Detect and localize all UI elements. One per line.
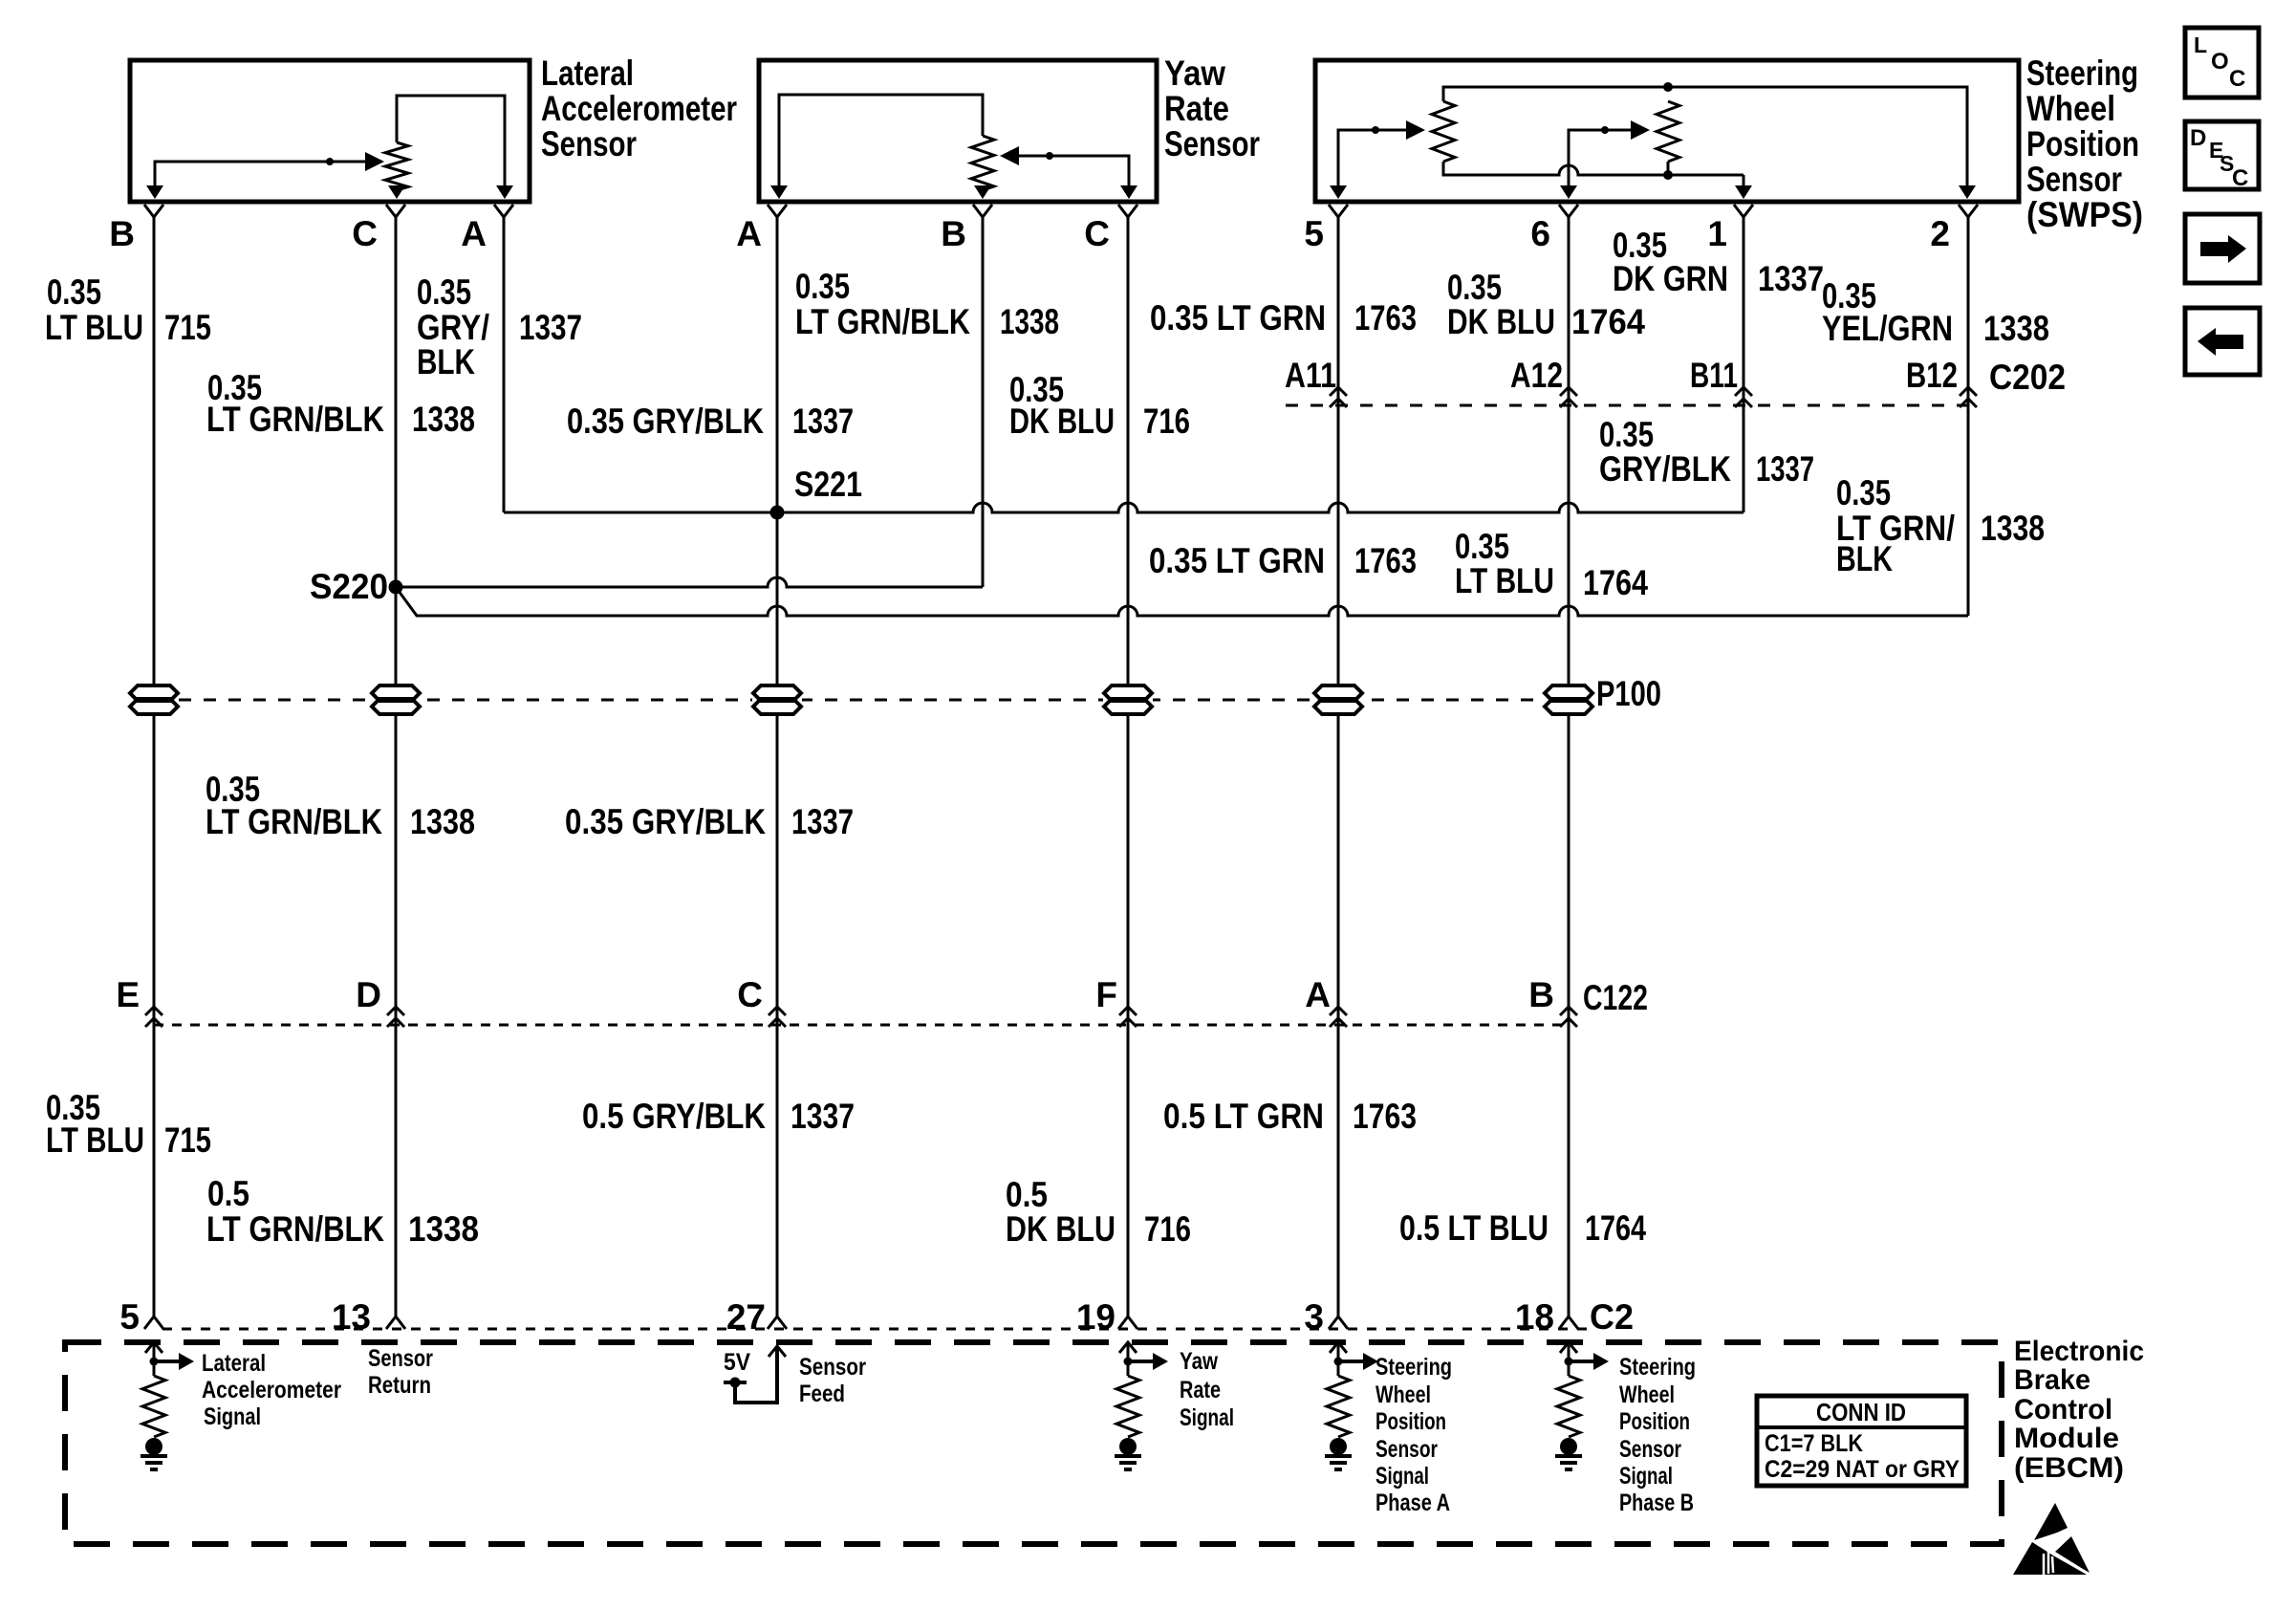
- EBCM pin 3 ground dot: [1330, 1438, 1347, 1455]
- wire LT GRN/BLK 1338 (yaw B): [982, 226, 985, 587]
- svg-text:19: 19: [1076, 1297, 1116, 1337]
- EBCM pin 3 text SWPS Signal Phase A: [1375, 1354, 1452, 1516]
- EBCM pin 5 signal arrow: [154, 1360, 180, 1363]
- terminal SWPS 2: [1959, 205, 1978, 226]
- label 0.5 DK BLU 716 (lower): [1006, 1175, 1191, 1249]
- arrow left icon: [2185, 308, 2260, 375]
- svg-text:S221: S221: [794, 465, 862, 504]
- svg-text:DK BLU: DK BLU: [1009, 402, 1115, 441]
- grommet P100 at wire x=1400: [1313, 685, 1363, 715]
- svg-text:Brake: Brake: [2014, 1364, 2090, 1396]
- label 0.35 GRY/BLK 1337 (lateral A): [417, 272, 582, 381]
- wire GRY/BLK 1337 (lateral A to S221): [503, 226, 506, 512]
- EBCM pin 18 junction dot: [1565, 1358, 1573, 1366]
- terminal SWPS 6: [1559, 205, 1578, 226]
- svg-text:Yaw: Yaw: [1164, 54, 1225, 93]
- yaw sensor internal loop wire: [779, 95, 983, 186]
- svg-text:Signal: Signal: [1180, 1404, 1234, 1431]
- svg-text:C202: C202: [1989, 358, 2066, 397]
- svg-text:Accelerometer: Accelerometer: [541, 89, 737, 128]
- connector C122 dashed line: [154, 1024, 1569, 1027]
- svg-text:B: B: [1528, 975, 1554, 1014]
- wire GRY/BLK 1337 (yaw A / S221 to EBCM 27): [776, 226, 779, 1308]
- svg-text:0.35: 0.35: [1599, 415, 1654, 454]
- svg-text:1337: 1337: [792, 402, 854, 441]
- terminal SWPS 5: [1329, 205, 1348, 226]
- SWPS wiper B arrow: [1631, 120, 1650, 140]
- SWPS top loop dot: [1663, 82, 1673, 92]
- connector C202 terminal A12: [1560, 387, 1577, 407]
- connector C122 terminal E: [145, 1007, 162, 1027]
- svg-text:1337: 1337: [791, 1097, 855, 1136]
- svg-text:P100: P100: [1596, 674, 1661, 713]
- svg-text:C: C: [2229, 66, 2245, 92]
- svg-text:Position: Position: [1619, 1408, 1690, 1435]
- SWPS resistor phase B: [1657, 101, 1679, 162]
- svg-text:A12: A12: [1510, 356, 1563, 395]
- wire S220 branch 1: [396, 577, 983, 587]
- svg-text:A11: A11: [1285, 356, 1336, 395]
- lateral sensor internal loop wire: [397, 96, 505, 186]
- svg-text:0.35 LT GRN: 0.35 LT GRN: [1150, 298, 1326, 337]
- svg-text:0.5: 0.5: [207, 1174, 249, 1213]
- yaw sensor pin B arrow: [974, 185, 991, 199]
- terminal EBCM pin 18: [1559, 1308, 1578, 1329]
- svg-text:B12: B12: [1906, 356, 1958, 395]
- svg-text:0.35: 0.35: [795, 267, 850, 306]
- svg-text:BLK: BLK: [1836, 539, 1893, 578]
- svg-text:1337: 1337: [1758, 259, 1824, 298]
- svg-text:Electronic: Electronic: [2014, 1336, 2144, 1367]
- EBCM pin 5 input arrow: [145, 1342, 162, 1353]
- svg-text:Signal: Signal: [1375, 1463, 1429, 1490]
- svg-text:L: L: [2194, 33, 2207, 57]
- EBCM module dashed box: [65, 1342, 2002, 1544]
- svg-text:Wheel: Wheel: [2026, 89, 2115, 128]
- SWPS pin 5 arrow: [1330, 185, 1347, 199]
- svg-text:LT GRN/BLK: LT GRN/BLK: [795, 302, 970, 341]
- svg-text:0.5 GRY/BLK: 0.5 GRY/BLK: [582, 1097, 766, 1136]
- SWPS title: [2026, 54, 2143, 234]
- label 0.35 LT BLU 1764 (A12 lower): [1455, 527, 1648, 602]
- svg-text:0.35: 0.35: [417, 272, 471, 312]
- svg-text:0.35: 0.35: [1455, 527, 1509, 566]
- SWPS resistor phase A: [1432, 101, 1455, 162]
- wire GRY/BLK 1337 (SWPS 1 / B11 to S221): [1743, 226, 1745, 512]
- lateral sensor potentiometer resistor: [385, 142, 408, 190]
- svg-text:C2=29 NAT or GRY: C2=29 NAT or GRY: [1765, 1456, 1960, 1483]
- svg-text:F: F: [1095, 975, 1117, 1014]
- terminal yaw C: [1118, 205, 1137, 226]
- SWPS wiper B wire: [1569, 130, 1633, 186]
- svg-text:1764: 1764: [1571, 302, 1645, 341]
- svg-text:Lateral: Lateral: [541, 54, 634, 93]
- yaw sensor wiper arrow: [1000, 146, 1019, 165]
- svg-text:0.35: 0.35: [1836, 473, 1891, 512]
- svg-text:716: 716: [1143, 402, 1190, 441]
- terminal yaw A: [768, 205, 787, 226]
- svg-text:1338: 1338: [408, 1209, 479, 1249]
- EBCM pin 18 text SWPS Signal Phase B: [1619, 1354, 1696, 1516]
- EBCM pin 19 ground dot: [1119, 1438, 1137, 1455]
- EBCM pin 27 text Sensor Feed: [799, 1354, 866, 1407]
- connector C202 terminal B12: [1960, 387, 1977, 407]
- svg-text:Sensor: Sensor: [1619, 1436, 1681, 1463]
- lateral accelerometer sensor title: [541, 54, 737, 163]
- svg-text:C: C: [2232, 165, 2248, 191]
- connector C122 terminal C: [769, 1007, 786, 1027]
- svg-text:LT GRN/BLK: LT GRN/BLK: [206, 400, 384, 439]
- svg-text:Rate: Rate: [1180, 1377, 1221, 1403]
- connector C122 terminal D: [387, 1007, 404, 1027]
- svg-text:B: B: [109, 214, 135, 253]
- svg-text:YEL/GRN: YEL/GRN: [1822, 309, 1953, 348]
- EBCM pin 19 ground: [1115, 1456, 1141, 1469]
- label 0.5 LT GRN/BLK 1338 (lower): [206, 1174, 479, 1249]
- label 0.35 LT GRN 1763 (A11 lower): [1149, 541, 1417, 580]
- lateral sensor wiper arrow: [365, 152, 384, 171]
- svg-text:LT GRN/BLK: LT GRN/BLK: [206, 802, 382, 841]
- EBCM title text: [2014, 1336, 2144, 1484]
- svg-text:1763: 1763: [1353, 1097, 1417, 1136]
- svg-text:LT BLU: LT BLU: [1455, 561, 1554, 600]
- svg-text:DK GRN: DK GRN: [1613, 259, 1728, 298]
- svg-text:5: 5: [1304, 214, 1324, 253]
- svg-text:0.35 GRY/BLK: 0.35 GRY/BLK: [567, 402, 764, 441]
- junction S221 dot: [770, 506, 785, 520]
- svg-text:A: A: [461, 214, 487, 253]
- EBCM pin 3 input arrow: [1330, 1342, 1347, 1353]
- yaw sensor pin C arrow: [1120, 185, 1137, 199]
- connector C2 face dashed line: [162, 1328, 1587, 1331]
- svg-text:716: 716: [1144, 1209, 1191, 1249]
- yaw rate sensor box: [759, 60, 1157, 202]
- svg-text:1338: 1338: [410, 802, 475, 841]
- svg-text:1338: 1338: [1983, 309, 2049, 348]
- svg-text:5V: 5V: [724, 1349, 750, 1376]
- label 0.35 GRY/BLK 1337 (B11): [1599, 415, 1814, 489]
- LOC icon: [2185, 28, 2259, 98]
- grommet P100 at wire x=1641: [1544, 685, 1593, 715]
- svg-text:Phase B: Phase B: [1619, 1490, 1694, 1516]
- svg-text:Sensor: Sensor: [799, 1354, 866, 1381]
- connector C122 terminal B: [1560, 1007, 1577, 1027]
- label 0.35 LT BLU 715 (lower): [46, 1088, 211, 1160]
- arrow right icon: [2185, 214, 2260, 283]
- svg-text:5: 5: [119, 1297, 140, 1337]
- connector C202 terminal B11: [1735, 387, 1752, 407]
- svg-text:715: 715: [164, 308, 211, 347]
- SWPS pin 2 arrow: [1959, 185, 1976, 199]
- svg-text:GRY/BLK: GRY/BLK: [1599, 449, 1731, 489]
- EBCM pin 19 signal arrow: [1128, 1360, 1154, 1363]
- svg-text:C1=7 BLK: C1=7 BLK: [1765, 1430, 1863, 1457]
- terminal lateral C: [386, 205, 405, 226]
- svg-text:Wheel: Wheel: [1375, 1382, 1431, 1408]
- SWPS wiper B dot: [1601, 126, 1609, 134]
- EBCM pin 3 signal arrow: [1338, 1360, 1364, 1363]
- svg-text:Sensor: Sensor: [1375, 1436, 1438, 1463]
- svg-text:Sensor: Sensor: [2026, 160, 2122, 199]
- EBCM pin 5 text Lateral Accelerometer Signal: [202, 1350, 341, 1430]
- yaw sensor potentiometer resistor: [971, 136, 994, 190]
- terminal EBCM pin 19: [1118, 1308, 1137, 1329]
- terminal lateral B: [144, 205, 163, 226]
- svg-text:C122: C122: [1583, 978, 1648, 1017]
- svg-text:DK BLU: DK BLU: [1447, 302, 1555, 341]
- svg-text:Rate: Rate: [1164, 89, 1229, 128]
- yaw sensor pin A arrow: [770, 185, 788, 199]
- terminal EBCM pin 27: [768, 1308, 787, 1329]
- svg-text:3: 3: [1304, 1297, 1324, 1337]
- terminal EBCM pin 3: [1329, 1308, 1348, 1329]
- terminal lateral A: [494, 205, 513, 226]
- svg-text:Yaw: Yaw: [1180, 1348, 1218, 1375]
- EBCM pin 5 ground dot: [145, 1438, 162, 1455]
- EBCM pin 3 ground: [1325, 1456, 1352, 1469]
- EBCM pin 19 pull resistor: [1116, 1376, 1139, 1437]
- connector C202 terminal A11: [1330, 387, 1347, 407]
- yaw sensor wiper dot: [1046, 152, 1053, 160]
- grommet P100 at wire x=1180: [1103, 685, 1153, 715]
- wire LT BLU 1764 (SWPS 6 to EBCM 18): [1568, 226, 1570, 1308]
- label 0.35 LT GRN/BLK 1338 (yaw B): [795, 267, 1059, 341]
- yaw rate sensor title: [1164, 54, 1260, 163]
- label 0.5 LT BLU 1764 (lower): [1399, 1208, 1646, 1248]
- svg-text:B11: B11: [1690, 356, 1738, 395]
- svg-text:C: C: [1084, 214, 1110, 253]
- ESD sensitive device symbol: [2013, 1503, 2090, 1575]
- svg-text:1764: 1764: [1583, 563, 1648, 602]
- svg-text:A: A: [736, 214, 762, 253]
- svg-text:1763: 1763: [1354, 298, 1417, 337]
- grommet P100 at wire x=161: [129, 685, 179, 715]
- EBCM pin 19 junction dot: [1124, 1358, 1133, 1366]
- svg-text:1337: 1337: [1756, 449, 1814, 489]
- SWPS pin 6 arrow: [1560, 185, 1577, 199]
- svg-text:Sensor: Sensor: [541, 124, 637, 163]
- terminal EBCM pin 13: [386, 1308, 405, 1329]
- label 0.35 DK BLU 1764 (SWPS 6): [1447, 268, 1645, 341]
- svg-text:2: 2: [1930, 214, 1950, 253]
- label 0.5 LT GRN 1763 (lower): [1163, 1097, 1417, 1136]
- label 0.35 GRY/BLK 1337 (yaw A): [567, 402, 854, 441]
- svg-text:Phase A: Phase A: [1375, 1490, 1450, 1516]
- svg-text:Accelerometer: Accelerometer: [202, 1377, 341, 1403]
- EBCM pin 18 ground: [1555, 1456, 1582, 1469]
- EBCM pin 18 signal arrow: [1569, 1360, 1594, 1363]
- svg-text:D: D: [2190, 125, 2206, 151]
- svg-text:LT BLU: LT BLU: [46, 1120, 144, 1160]
- wire LT BLU 715 (lateral B to EBCM 5): [153, 226, 156, 1308]
- junction S220 dot: [389, 580, 403, 595]
- SWPS pin 1 arrow: [1735, 185, 1752, 199]
- svg-text:Wheel: Wheel: [1619, 1382, 1675, 1408]
- svg-text:0.35 LT GRN: 0.35 LT GRN: [1149, 541, 1325, 580]
- svg-text:CONN ID: CONN ID: [1816, 1398, 1906, 1426]
- label 0.35 YEL/GRN 1338 (SWPS 2): [1822, 276, 2049, 348]
- SWPS wiper A wire: [1338, 130, 1408, 186]
- svg-text:(EBCM): (EBCM): [2014, 1452, 2124, 1484]
- svg-text:S220: S220: [310, 567, 388, 606]
- EBCM pin 18 ground dot: [1560, 1438, 1577, 1455]
- svg-text:0.35: 0.35: [47, 272, 101, 312]
- svg-text:C: C: [352, 214, 378, 253]
- svg-text:Feed: Feed: [799, 1381, 845, 1407]
- SWPS top loop wire: [1443, 87, 1967, 186]
- label 0.35 LT GRN/BLK 1338 (B12): [1836, 473, 2045, 578]
- SWPS wiper A dot: [1372, 126, 1379, 134]
- svg-text:Steering: Steering: [1375, 1354, 1452, 1381]
- wire LT GRN 1763 (SWPS 5 to EBCM 3): [1337, 226, 1340, 1308]
- wire LT GRN/BLK 1338 (SWPS 2 / B12 to S220): [1967, 226, 1970, 616]
- svg-text:Control: Control: [2014, 1394, 2112, 1425]
- svg-text:1337: 1337: [519, 308, 582, 347]
- svg-text:0.5 LT BLU: 0.5 LT BLU: [1399, 1208, 1549, 1248]
- EBCM pin 13 text Sensor Return: [368, 1345, 433, 1399]
- connector C202 dashed line: [1286, 404, 1968, 407]
- EBCM pin 19 input arrow: [1119, 1342, 1137, 1353]
- svg-text:1338: 1338: [1981, 509, 2045, 548]
- svg-text:0.5 LT GRN: 0.5 LT GRN: [1163, 1097, 1324, 1136]
- svg-text:13: 13: [332, 1297, 371, 1337]
- lateral sensor wiper dot: [326, 158, 334, 165]
- svg-text:1337: 1337: [791, 802, 854, 841]
- svg-text:Sensor: Sensor: [368, 1345, 433, 1372]
- svg-text:E: E: [116, 975, 140, 1014]
- svg-text:C2: C2: [1590, 1297, 1634, 1337]
- svg-text:Position: Position: [2026, 124, 2139, 163]
- svg-text:GRY/: GRY/: [417, 308, 489, 347]
- svg-text:Signal: Signal: [1619, 1463, 1673, 1490]
- steering wheel position sensor box: [1315, 60, 2019, 202]
- svg-text:1338: 1338: [412, 400, 475, 439]
- svg-text:18: 18: [1515, 1297, 1554, 1337]
- terminal SWPS 1: [1734, 205, 1753, 226]
- svg-text:B: B: [941, 214, 966, 253]
- EBCM pin 19 text Yaw Rate Signal: [1180, 1348, 1234, 1431]
- svg-text:BLK: BLK: [417, 342, 475, 381]
- lateral sensor pin B arrow: [146, 185, 163, 199]
- svg-text:Signal: Signal: [204, 1403, 261, 1430]
- svg-text:A: A: [1305, 975, 1331, 1014]
- CONN ID table: [1757, 1396, 1966, 1486]
- DESC icon: [2185, 121, 2259, 191]
- yaw sensor wiper wire: [1017, 156, 1129, 186]
- svg-text:1763: 1763: [1354, 541, 1417, 580]
- svg-text:C: C: [737, 975, 763, 1014]
- svg-text:D: D: [356, 975, 381, 1014]
- label 0.35 LT GRN/BLK 1338 (lateral C): [206, 368, 475, 439]
- grommet row P100 dashed line: [154, 699, 1569, 702]
- SWPS bottom loop vertical to pin 1: [1668, 162, 1744, 186]
- svg-text:0.5: 0.5: [1006, 1175, 1048, 1214]
- connector C122 terminal F: [1119, 1007, 1137, 1027]
- label 0.35 LT GRN 1763 (SWPS 5): [1150, 298, 1417, 337]
- lateral sensor pin C arrow: [396, 187, 399, 190]
- terminal yaw B: [973, 205, 992, 226]
- lateral sensor wiper wire: [155, 162, 375, 186]
- label 0.35 DK BLU 716 (yaw C): [1009, 370, 1190, 441]
- svg-text:Steering: Steering: [2026, 54, 2138, 93]
- svg-text:715: 715: [164, 1120, 211, 1160]
- wire S221 horizontal run: [504, 503, 1744, 512]
- EBCM pin 18 pull resistor: [1557, 1376, 1580, 1437]
- svg-text:1: 1: [1707, 214, 1727, 253]
- svg-text:DK BLU: DK BLU: [1006, 1209, 1116, 1249]
- svg-text:Lateral: Lateral: [202, 1350, 266, 1377]
- svg-text:Return: Return: [368, 1372, 431, 1399]
- terminal EBCM pin 5: [144, 1308, 163, 1329]
- wire DK BLU 716 (yaw C to EBCM 19): [1127, 226, 1130, 1308]
- svg-text:0.35 GRY/BLK: 0.35 GRY/BLK: [565, 802, 766, 841]
- svg-text:(SWPS): (SWPS): [2026, 195, 2143, 234]
- label 0.35 GRY/BLK 1337 (below P100): [565, 802, 854, 841]
- EBCM pin 3 junction dot: [1334, 1358, 1343, 1366]
- EBCM pin 5 pull resistor: [142, 1376, 165, 1437]
- SWPS bottom loop dot: [1663, 170, 1673, 180]
- label 0.35 LT BLU 715: [45, 272, 211, 347]
- svg-text:LT GRN/BLK: LT GRN/BLK: [206, 1209, 384, 1249]
- lateral accelerometer sensor box: [130, 60, 530, 202]
- svg-text:Steering: Steering: [1619, 1354, 1696, 1381]
- wire LT GRN/BLK 1338 (lateral C / S220 to EBCM 13): [395, 226, 398, 1308]
- EBCM 5V source: [769, 1346, 786, 1357]
- svg-text:O: O: [2211, 49, 2229, 75]
- svg-text:LT BLU: LT BLU: [45, 308, 143, 347]
- svg-text:27: 27: [726, 1297, 766, 1337]
- grommet P100 at wire x=813: [752, 685, 802, 715]
- label 0.35 LT GRN/BLK 1338 (below P100): [206, 770, 475, 841]
- EBCM pin 5 junction dot: [150, 1358, 159, 1366]
- lateral sensor pin A arrow: [496, 185, 513, 199]
- grommet P100 at wire x=414: [371, 685, 421, 715]
- EBCM pin 18 input arrow: [1560, 1342, 1577, 1353]
- svg-text:6: 6: [1530, 214, 1550, 253]
- svg-text:1764: 1764: [1585, 1208, 1646, 1248]
- svg-text:Module: Module: [2014, 1423, 2119, 1454]
- svg-text:Position: Position: [1375, 1408, 1446, 1435]
- EBCM pin 3 pull resistor: [1327, 1376, 1350, 1437]
- label 0.35 DK GRN 1337 (SWPS 1): [1613, 226, 1824, 298]
- SWPS wiper A arrow: [1406, 120, 1425, 140]
- EBCM pin 5 ground: [141, 1456, 167, 1469]
- wire S220 branch 2: [396, 587, 1968, 616]
- connector C122 terminal A: [1330, 1007, 1347, 1027]
- svg-text:0.35: 0.35: [1447, 268, 1502, 307]
- label 0.5 GRY/BLK 1337 (lower): [582, 1097, 855, 1136]
- svg-text:1338: 1338: [1000, 302, 1059, 341]
- svg-text:Sensor: Sensor: [1164, 124, 1260, 163]
- SWPS bottom loop wire with hop: [1443, 162, 1744, 175]
